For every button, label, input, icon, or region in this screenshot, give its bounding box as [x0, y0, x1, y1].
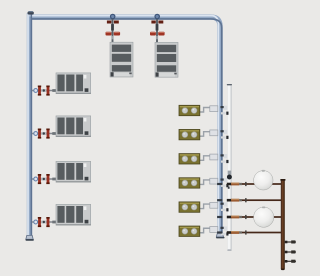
drain stub 2: [285, 250, 296, 253]
left riser top cap: [28, 11, 34, 15]
radiator 1 (left column): [56, 73, 91, 94]
expansion tank 2: [254, 207, 274, 228]
fan coil unit row 4: [179, 178, 229, 188]
branch valve row 1 on left riser: [32, 86, 57, 96]
hanging valve assembly B on top run: [150, 14, 165, 44]
fan coil unit row 3: [179, 154, 229, 164]
hanging valve assembly A on top run: [106, 14, 121, 44]
hanging radiator B: [155, 42, 178, 77]
branch valve row 4 on left riser: [32, 217, 57, 227]
copper header riser: [280, 179, 285, 270]
pump/valve on white pipe: [227, 171, 232, 189]
hanging radiator A: [110, 42, 133, 77]
fan coil unit row 2: [179, 129, 229, 139]
left riser bottom flange: [26, 235, 34, 240]
right riser bottom flange: [216, 233, 224, 238]
expansion tank 1: [254, 170, 273, 190]
condensate/white pipe: [227, 84, 232, 251]
copper run 4: [217, 230, 283, 234]
radiator 3 (left column): [56, 161, 91, 182]
fan coil unit row 6: [179, 226, 229, 236]
copper run 2: [217, 198, 283, 202]
branch valve row 2 on left riser: [32, 129, 57, 139]
copper run 3: [217, 215, 283, 219]
fan coil unit row 5: [179, 202, 229, 212]
copper run 1: [217, 182, 283, 186]
branch valve row 3 on left riser: [32, 174, 57, 184]
radiator 2 (left column): [56, 116, 91, 137]
main supply pipe: left riser, top run, right riser: [28, 13, 222, 236]
drain stub 3: [285, 260, 296, 263]
fan coil unit row 1: [179, 105, 229, 115]
radiator 4 (left column): [56, 204, 91, 225]
drain stub 1: [285, 240, 296, 243]
